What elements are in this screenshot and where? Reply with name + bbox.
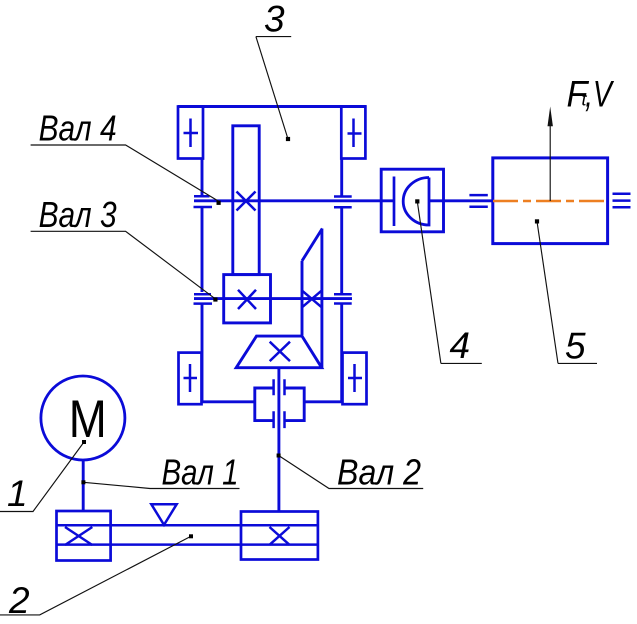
drum 5 box <box>493 158 608 244</box>
bearing ticks shaft 3 right wall <box>334 294 352 303</box>
pulley 1 X mark <box>65 527 92 545</box>
coupling 4 box <box>381 169 443 232</box>
bevel gear on shaft 2 (trapezoid) <box>236 336 322 368</box>
leader dot Вал 3 <box>213 297 217 301</box>
bearing block bottom-right <box>343 353 367 405</box>
coupling on shaft 2 left half bracket <box>255 388 273 421</box>
shaft 2 (Вал 2) vertical line <box>277 368 280 512</box>
svg-text:,V: ,V <box>585 74 615 115</box>
leader dot 4 <box>415 199 419 203</box>
leader label Вал 2 <box>279 456 424 489</box>
gear X mark shaft 3 <box>238 290 256 309</box>
leader label 4 <box>417 201 482 363</box>
cross mark in top-left block <box>184 119 199 148</box>
gear on shaft 3 (square) <box>224 275 271 323</box>
coupling 4 D-shape <box>403 178 429 226</box>
motor circle <box>41 376 125 460</box>
bearing block top-right <box>341 107 365 159</box>
svg-text:Вал 1: Вал 1 <box>162 452 239 493</box>
bearing block bottom-left <box>179 353 202 405</box>
svg-text:Вал 2: Вал 2 <box>337 452 421 493</box>
pulley 2 X mark <box>270 527 290 545</box>
svg-text:M: M <box>69 390 107 449</box>
force arrow line <box>549 112 551 201</box>
bearing ticks shaft 4 left wall <box>194 196 213 207</box>
leader label Вал 1 <box>83 482 239 488</box>
bearing block top-left <box>178 107 203 159</box>
leader dot 3 <box>286 137 290 141</box>
leader dot 5 <box>535 219 539 223</box>
leader label Вал 3 <box>31 231 216 299</box>
bearing ticks shaft 4 right wall <box>334 197 352 208</box>
gear X mark shaft 4 <box>237 192 256 211</box>
svg-text:1: 1 <box>7 473 28 514</box>
leader label Вал 4 <box>31 145 219 202</box>
motor shaft <box>82 460 85 511</box>
bearing ticks shaft 3 left wall <box>194 294 213 303</box>
cross mark in top-right block <box>348 119 362 148</box>
pulley 1 (left, on motor shaft) <box>57 511 111 561</box>
cross mark in bottom-right block <box>348 364 362 392</box>
orange center line of drum <box>493 200 608 203</box>
gear wheel on shaft 4 (tall rectangle) <box>233 126 259 275</box>
leader dot 1 <box>82 440 86 444</box>
coupling 4 inner line <box>393 177 396 227</box>
leader dot Вал 4 <box>217 201 221 205</box>
leader label 1 <box>0 442 84 512</box>
coupling flange ticks <box>274 379 285 428</box>
bevel gear on shaft 3 (cone section) <box>302 229 322 368</box>
drum support hatch left <box>469 195 487 207</box>
svg-text:4: 4 <box>450 325 471 366</box>
cross mark in bottom-left block <box>184 364 198 392</box>
force arrow head <box>548 107 553 127</box>
pulley 2 (right, on shaft 2) <box>241 512 318 560</box>
svg-text:Вал 4: Вал 4 <box>39 108 117 149</box>
right housing wall <box>340 159 343 402</box>
leader label 5 <box>537 221 597 363</box>
leader label 3 <box>256 37 291 139</box>
leader dot 2 <box>189 534 193 538</box>
svg-text:Вал 3: Вал 3 <box>39 194 117 235</box>
housing bottom line left segment <box>202 400 255 403</box>
svg-text:2: 2 <box>8 580 30 621</box>
shaft 4 (Вал 4) horizontal line <box>194 199 492 202</box>
leader label 2 <box>0 536 191 615</box>
drum support hatch right <box>613 194 631 207</box>
housing bottom line right segment <box>304 400 342 403</box>
leader dot Вал 1 <box>81 480 85 484</box>
gearbox housing top line <box>178 105 366 108</box>
V-belt triangle symbol <box>151 504 176 525</box>
left housing wall <box>201 159 204 402</box>
bevel gear X mark shaft 2 <box>270 342 290 361</box>
shaft 3 (Вал 3) horizontal line <box>194 297 352 300</box>
svg-text:3: 3 <box>264 0 285 39</box>
bevel gear X mark shaft 3 <box>302 291 322 308</box>
coupling on shaft 2 right half bracket <box>285 388 304 421</box>
leader dot Вал 2 <box>277 454 281 458</box>
svg-text:5: 5 <box>565 326 586 367</box>
belt bottom line <box>57 543 318 546</box>
belt top line <box>57 524 318 527</box>
